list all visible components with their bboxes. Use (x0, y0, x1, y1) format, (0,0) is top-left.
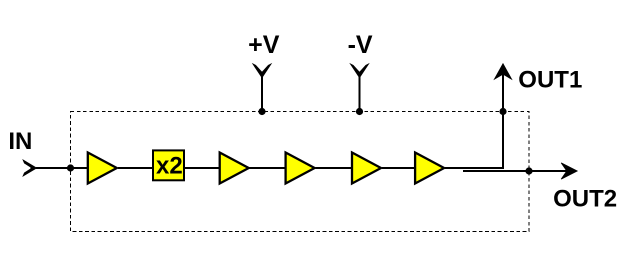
junction dot: OUT2 wire on right boundary (525, 167, 532, 174)
svg-text:+V: +V (248, 31, 280, 59)
amplifier A3 (286, 153, 315, 184)
svg-text:IN: IN (8, 128, 32, 155)
module boundary (dashed box) (71, 112, 530, 232)
wire: -V stem to boundary (359, 77, 361, 112)
wire: +V stem to boundary (261, 77, 263, 112)
wire: IN port to amplifier A1 input (36, 167, 88, 169)
svg-text:-V: -V (348, 31, 373, 59)
port arrowhead OUT1 (494, 64, 511, 79)
junction dot: -V on top boundary (356, 108, 363, 115)
wire: A4 output to amplifier A5 (382, 167, 415, 169)
wire: A3 output to amplifier A4 (316, 167, 353, 169)
amplifier A5 (415, 153, 444, 184)
wire: A2 output to amplifier A3 (250, 167, 286, 169)
power port arrowhead -V (351, 64, 369, 77)
gain block x2 (153, 150, 184, 180)
port arrowhead IN (23, 160, 36, 176)
amplifier A1 (88, 153, 117, 184)
svg-text:x2: x2 (156, 152, 183, 179)
power port arrowhead +V (253, 64, 271, 77)
wire: A5 output to OUT1 corner (445, 66, 503, 168)
amplifier A4 (352, 153, 381, 184)
wire: OUT2 net (463, 170, 576, 172)
wire: x2 gain block to amplifier A2 (185, 167, 220, 169)
wire: A1 output to x2 gain block (118, 167, 154, 169)
svg-text:OUT1: OUT1 (518, 66, 582, 93)
svg-text:OUT2: OUT2 (553, 186, 617, 213)
junction dot: IN wire on boundary (67, 164, 74, 171)
junction dot: OUT1 wire on top boundary (499, 108, 506, 115)
amplifier A2 (220, 153, 249, 184)
junction dot: +V on top boundary (258, 108, 265, 115)
port arrowhead OUT2 (561, 163, 577, 179)
